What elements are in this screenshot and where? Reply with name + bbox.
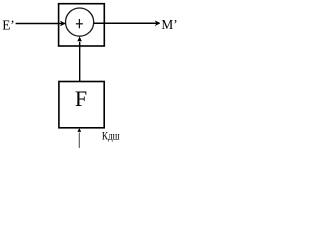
wire output M' [94, 22, 160, 24]
svg-text:F: F [75, 86, 87, 111]
summing junction circle [66, 8, 94, 36]
svg-text:E’: E’ [2, 17, 15, 32]
wire input E' [16, 23, 65, 25]
svg-text:Кдш: Кдш [102, 131, 120, 143]
wire feedback vertical [79, 42, 81, 82]
block F [59, 82, 104, 128]
svg-text:M’: M’ [161, 17, 177, 32]
wire input Kdsh arrow [78, 133, 80, 148]
summing junction box [59, 4, 105, 46]
plus sign [76, 19, 83, 28]
